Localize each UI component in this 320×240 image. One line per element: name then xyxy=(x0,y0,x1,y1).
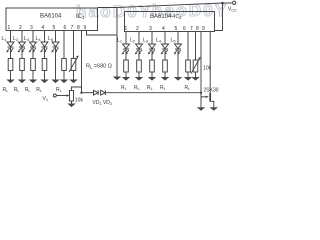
resistor RL3 xyxy=(31,59,36,71)
label L8 xyxy=(143,38,149,44)
wire Vcc drop to IC2 xyxy=(215,3,223,31)
potentiometer RP 10k xyxy=(70,91,74,102)
IC1 pin numbers 1-9 xyxy=(8,25,87,31)
svg-text:RL: RL xyxy=(147,85,153,91)
wire pin6 resistor to ground xyxy=(63,71,65,80)
wire RL8 to ground xyxy=(151,72,153,77)
op-amp/IC U1 box BA6104 IC1 xyxy=(6,8,98,31)
wire IC1 pin3 xyxy=(32,31,34,43)
wire IC1 pin2 xyxy=(21,31,23,43)
LED L7 xyxy=(135,44,143,54)
label L7 xyxy=(130,38,136,44)
wire L6 to resistor xyxy=(125,49,127,60)
svg-text:1: 1 xyxy=(125,26,128,32)
svg-text:6: 6 xyxy=(64,25,67,31)
ground under mid vertical xyxy=(113,77,121,81)
label RL9 xyxy=(160,85,166,91)
ground under RL7 xyxy=(135,77,143,81)
wire IC1 pin4 xyxy=(44,31,46,43)
wire IC2 pin5 xyxy=(177,32,179,45)
terminal V1 input xyxy=(53,94,56,97)
svg-text:L5: L5 xyxy=(171,38,177,44)
svg-text:VCC: VCC xyxy=(228,7,237,13)
rheostat R2 arrow xyxy=(191,59,200,74)
label L5 xyxy=(48,36,54,42)
node Vcc junction xyxy=(221,2,224,5)
ground under RL8 xyxy=(148,77,156,81)
watermark haoD0Y left instance xyxy=(76,2,153,21)
label L4 xyxy=(36,36,42,42)
resistor RL8 xyxy=(150,60,155,72)
label L10 xyxy=(171,38,177,44)
svg-text:L3: L3 xyxy=(24,36,30,42)
svg-text:9: 9 xyxy=(84,25,87,31)
wire RL2 to ground xyxy=(21,71,23,80)
wire IC1 pin8 down to input node xyxy=(81,31,83,93)
svg-text:RL: RL xyxy=(14,87,20,93)
ground under RL6 xyxy=(122,77,130,81)
svg-text:4: 4 xyxy=(42,25,45,31)
wire IC2 pin7 xyxy=(195,32,197,61)
svg-text:L1: L1 xyxy=(2,36,8,42)
svg-text:L5: L5 xyxy=(48,36,54,42)
label RL1 xyxy=(3,87,9,93)
wire VD2 to JFET gate node xyxy=(105,92,201,94)
label RL3 xyxy=(25,87,31,93)
ground under L10 xyxy=(174,77,182,81)
resistor RL4 xyxy=(42,59,47,71)
svg-text:7: 7 xyxy=(190,26,193,32)
wire IC2 pin9 down to JFET drain xyxy=(209,32,211,94)
wire L7 to resistor xyxy=(138,49,140,60)
ground under source xyxy=(210,107,218,111)
IC1 label BA6104 xyxy=(40,14,62,20)
ground under RL1 xyxy=(6,80,14,84)
wire L8 to resistor xyxy=(151,49,153,60)
label 2SK30 xyxy=(204,87,219,93)
rheostat R1 (pin7) xyxy=(71,59,76,71)
svg-text:9: 9 xyxy=(202,26,205,32)
wire RL4 to ground xyxy=(44,71,46,80)
resistor RL1 xyxy=(8,59,13,71)
svg-text:2: 2 xyxy=(136,26,139,32)
ground under rheostat R2 xyxy=(191,77,199,81)
svg-text:RL: RL xyxy=(36,87,42,93)
label RL value xyxy=(86,64,112,70)
wire pot bottom to ground xyxy=(71,101,73,104)
wire pin6 resistor to ground xyxy=(187,72,189,77)
svg-text:L2: L2 xyxy=(13,36,19,42)
label RL10 xyxy=(185,85,191,91)
label RL7 xyxy=(134,85,140,91)
resistor RL2 xyxy=(20,59,25,71)
wire RL7 to ground xyxy=(138,72,140,77)
svg-text:L4: L4 xyxy=(36,36,42,42)
label VD1 VD2 xyxy=(93,100,113,106)
watermark haoD0Y right instance xyxy=(152,1,229,20)
wire L1 to RL1 xyxy=(10,47,12,59)
wire IC2 pin6 xyxy=(187,32,189,61)
wire IC2 pin1 xyxy=(125,32,127,45)
wire IC1 pin7 xyxy=(73,31,75,59)
LED L9 xyxy=(161,44,169,54)
wire V1 to potentiometer wiper xyxy=(56,95,67,97)
LED L8 xyxy=(148,44,156,54)
ground under RL9 xyxy=(161,77,169,81)
wire IC1 top edge to Vcc riser xyxy=(98,7,118,9)
svg-text:3: 3 xyxy=(149,26,152,32)
node gate junction xyxy=(200,92,202,94)
svg-text:L2: L2 xyxy=(130,38,136,44)
LED L6 xyxy=(122,44,130,54)
resistor RL9 xyxy=(163,60,168,72)
label 10k (rheostat R2) xyxy=(203,66,212,72)
svg-text:10k: 10k xyxy=(75,98,84,104)
wire Vcc rail xyxy=(117,3,233,8)
wire rheostat to ground xyxy=(73,71,75,80)
wire IC2 pin3 xyxy=(151,32,153,45)
resistor RL7 xyxy=(137,60,142,72)
svg-text:RL: RL xyxy=(25,87,31,93)
wire IC1 pin6 xyxy=(63,31,65,59)
svg-text:2SK30: 2SK30 xyxy=(204,87,219,93)
wire IC2 pin8 down to gate node xyxy=(200,32,202,93)
wire RL3 to ground xyxy=(32,71,34,80)
svg-text:4: 4 xyxy=(162,26,165,32)
wire Vcc riser (mid vertical) xyxy=(116,8,118,77)
LED L2 xyxy=(18,42,26,52)
svg-text:RL: RL xyxy=(121,85,127,91)
ground under rheostat xyxy=(69,80,77,84)
label L9 xyxy=(156,38,162,44)
wire RL6 to ground xyxy=(125,72,127,77)
wire IC2 pin4 xyxy=(164,32,166,45)
IC1 designator IC1 xyxy=(76,14,85,20)
resistor RL10 (IC2 pin6) xyxy=(186,60,191,72)
diode VD1 xyxy=(94,90,99,95)
svg-text:RL: RL xyxy=(3,87,9,93)
svg-text:6: 6 xyxy=(183,26,186,32)
ground under L5 xyxy=(51,80,59,84)
ground under RL2 xyxy=(18,80,26,84)
svg-text:RL: RL xyxy=(160,85,166,91)
svg-text:5: 5 xyxy=(175,26,178,32)
node input junction xyxy=(80,92,82,94)
label RL4 xyxy=(36,87,42,93)
svg-text:5: 5 xyxy=(53,25,56,31)
label RL2 xyxy=(14,87,20,93)
rheostat R2 (IC2 pin7) xyxy=(193,60,198,72)
svg-text:RL: RL xyxy=(134,85,140,91)
svg-text:1: 1 xyxy=(8,25,11,31)
wire RL9 to ground xyxy=(164,72,166,77)
svg-text:VD1 VD2: VD1 VD2 xyxy=(93,100,113,106)
svg-text:L4: L4 xyxy=(156,38,162,44)
wire IC1 pin9 to Vcc riser xyxy=(87,31,118,36)
IC2 pin numbers 1-9 xyxy=(125,26,206,32)
wire junction to VD1 xyxy=(82,92,94,94)
wire RL1 to ground xyxy=(10,71,12,80)
LED L4 xyxy=(40,42,48,52)
ground under potentiometer xyxy=(67,104,75,108)
wire L4 to RL4 xyxy=(44,47,46,59)
svg-text:7: 7 xyxy=(71,25,74,31)
svg-text:3: 3 xyxy=(30,25,33,31)
ground under gate node xyxy=(197,107,205,111)
op-amp/IC U2 box BA6104 IC2 xyxy=(125,12,215,32)
wire pot top to pin8 node xyxy=(72,87,82,91)
wire IC1 pin1 xyxy=(10,31,12,43)
svg-text:IC1: IC1 xyxy=(76,14,85,20)
ground under RL3 xyxy=(29,80,37,84)
resistor RL6 xyxy=(124,60,129,72)
wire IC1 pin5 xyxy=(55,31,57,43)
svg-text:BA6104–IC2: BA6104–IC2 xyxy=(150,14,182,20)
wire L10 to ground xyxy=(177,49,179,77)
label RL6 xyxy=(121,85,127,91)
wire L3 to RL3 xyxy=(32,47,34,59)
wire L5 to ground xyxy=(55,47,57,80)
label 10k (potentiometer) xyxy=(75,98,84,104)
ground under IC2 pin6 resistor xyxy=(184,77,192,81)
label RL8 xyxy=(147,85,153,91)
IC2 label BA6104-IC2 xyxy=(150,14,182,20)
terminal Vcc xyxy=(233,1,236,4)
transistor Q1 2SK30 gate lead xyxy=(201,96,207,98)
svg-text:8: 8 xyxy=(77,25,80,31)
label RL5 xyxy=(56,87,62,93)
wire source to ground xyxy=(210,101,214,107)
LED L10 xyxy=(174,44,182,54)
diode VD2 xyxy=(101,90,106,95)
LED L5 xyxy=(51,42,59,52)
wire gate node down to ground xyxy=(200,93,202,108)
wire rheostat R2 to ground xyxy=(195,72,197,77)
svg-text:8: 8 xyxy=(196,26,199,32)
label V1 xyxy=(43,96,49,102)
LED L3 xyxy=(29,42,37,52)
svg-text:RL: RL xyxy=(56,87,62,93)
label L6 xyxy=(117,38,123,44)
resistor RL5 (pin6) xyxy=(62,59,67,71)
transistor Q1 channel bar xyxy=(209,93,211,102)
label L2 xyxy=(13,36,19,42)
LED L1 xyxy=(6,42,14,52)
wire IC2 pin2 xyxy=(138,32,140,45)
wire L9 to resistor xyxy=(164,49,166,60)
label L1 xyxy=(2,36,8,42)
svg-text:BA6104: BA6104 xyxy=(40,14,62,20)
svg-text:L1: L1 xyxy=(117,38,123,44)
svg-text:2: 2 xyxy=(19,25,22,31)
ground under RL4 xyxy=(40,80,48,84)
svg-text:L3: L3 xyxy=(143,38,149,44)
ground under pin6 resistor xyxy=(60,80,68,84)
wire L2 to RL2 xyxy=(21,47,23,59)
label Vcc xyxy=(228,7,237,13)
label L3 xyxy=(24,36,30,42)
svg-text:RL =680 Ω: RL =680 Ω xyxy=(86,64,112,70)
svg-text:V1: V1 xyxy=(43,96,49,102)
rheostat R1 arrow xyxy=(69,57,78,72)
svg-text:RL: RL xyxy=(185,85,191,91)
